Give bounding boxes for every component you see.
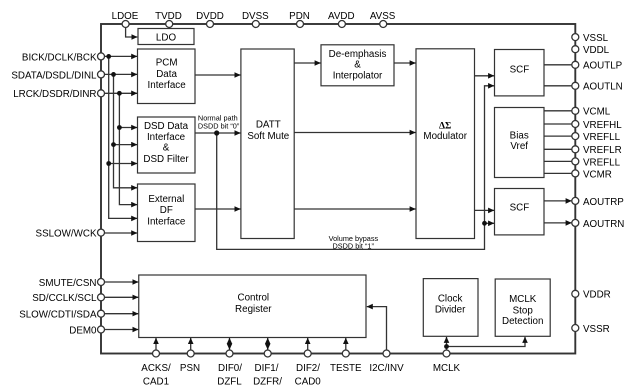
svg-text:Detection: Detection [502, 316, 543, 327]
wire De-emphasis to Modulator [394, 62, 416, 64]
svg-text:VCML: VCML [583, 107, 611, 118]
pin PSN [180, 350, 200, 374]
wire BICK branch into DSD Filter [109, 163, 138, 165]
wire DIF1/DZFR to Control Register bidirectional [267, 338, 269, 344]
wire Bias Vref to VREFHL [544, 123, 572, 125]
Control Register block [139, 275, 366, 338]
svg-text:Modulator: Modulator [423, 131, 467, 142]
wire LRCK branch into DSD Filter [119, 127, 137, 129]
svg-text:Interface: Interface [147, 217, 186, 228]
wire PCM out to DATT [195, 74, 241, 76]
wire MCLK branch to MCLK Stop Detection [447, 337, 526, 347]
wire MCLK to Clock Divider [446, 337, 448, 350]
junction node BICK [106, 54, 111, 59]
svg-text:LDOE: LDOE [112, 11, 139, 22]
svg-text:Interpolator: Interpolator [333, 70, 383, 81]
annotation volume bypass [329, 234, 379, 251]
svg-text:AOUTLP: AOUTLP [583, 61, 623, 72]
svg-text:Stop: Stop [513, 305, 534, 316]
svg-text:PCM: PCM [156, 57, 178, 68]
wire LDOE to LDO [126, 27, 138, 38]
LDO regulator U-LDO [138, 29, 194, 45]
junction node SDATA [111, 72, 116, 77]
svg-text:Soft Mute: Soft Mute [247, 131, 289, 142]
svg-text:VREFLL: VREFLL [583, 157, 621, 168]
svg-text:DSDD bit “1”: DSDD bit “1” [333, 242, 375, 251]
wire DIF2/CAD0 to Control Register [307, 338, 309, 350]
svg-text:SCF: SCF [510, 203, 530, 214]
svg-text:VSSL: VSSL [583, 33, 609, 44]
pin VREFLR [572, 145, 622, 156]
svg-text:CAD0: CAD0 [295, 376, 322, 387]
svg-text:DZFR/: DZFR/ [253, 376, 282, 387]
svg-text:LRCK/DSDR/DINR: LRCK/DSDR/DINR [13, 89, 96, 100]
wire SLOW/CDTI/SDA to Control Register [105, 313, 139, 315]
SCF block (right channel) [495, 189, 545, 235]
wire DEM0 to Control Register [105, 329, 139, 331]
svg-text:LDO: LDO [156, 33, 177, 44]
pin AOUTLN [572, 82, 623, 93]
svg-text:Vref: Vref [510, 141, 528, 152]
svg-text:Clock: Clock [438, 294, 463, 305]
Bias Vref block [495, 108, 545, 178]
svg-text:VREFHL: VREFHL [583, 120, 622, 131]
wire SDATA branch into DSD Filter [114, 144, 138, 146]
svg-text:Interface: Interface [147, 132, 186, 143]
svg-text:DVSS: DVSS [242, 11, 269, 22]
svg-text:Control: Control [238, 293, 270, 304]
wire External DF out to DATT [195, 208, 241, 210]
svg-text:Interface: Interface [148, 80, 187, 91]
pin LDOE [112, 11, 139, 28]
pin DVDD [196, 11, 224, 28]
svg-text:VSSR: VSSR [583, 324, 610, 335]
pin VSSL [572, 33, 609, 44]
DSD Data Interface & DSD Filter block [138, 117, 196, 173]
svg-text:BICK/DCLK/BCK: BICK/DCLK/BCK [22, 52, 97, 63]
pin ACKS/CAD1 [141, 350, 171, 387]
svg-text:TESTE: TESTE [330, 363, 362, 374]
wire DIF0/DZFL to Control Register bidirectional [229, 338, 231, 344]
svg-text:DATT: DATT [256, 119, 281, 130]
pin TESTE [330, 350, 362, 374]
svg-text:SCF: SCF [510, 64, 530, 75]
pin AOUTRP [572, 197, 624, 208]
pin DIF2/CAD0 [295, 350, 322, 387]
pin SSLOW/WCK [36, 229, 105, 240]
wire Bias Vref to VCMR [544, 172, 572, 174]
wire LRCK to PCM Data Interface [105, 92, 138, 94]
svg-text:PDN: PDN [289, 11, 310, 22]
wire Bias Vref to VCML [544, 110, 572, 112]
svg-text:VDDL: VDDL [583, 45, 610, 56]
svg-text:DSDD bit “0”: DSDD bit “0” [198, 121, 240, 130]
wire DATT mid to Modulator [294, 132, 415, 134]
svg-text:External: External [148, 194, 184, 205]
wire I2C/INV to Control Register [367, 307, 387, 351]
junction node DSD row1 [117, 125, 122, 130]
pin DVSS [242, 11, 269, 28]
pin SLOW/CDTI/SDA [19, 310, 104, 321]
svg-text:AVSS: AVSS [370, 11, 396, 22]
svg-text:De-emphasis: De-emphasis [329, 49, 387, 60]
pin AOUTRN [572, 219, 625, 230]
pin MCLK [433, 350, 461, 374]
pin DEM0 [69, 325, 104, 336]
svg-text:VCMR: VCMR [583, 169, 612, 180]
svg-text:VREFLR: VREFLR [583, 145, 622, 156]
junction node LRCK [117, 91, 122, 96]
svg-text:DSD Filter: DSD Filter [143, 154, 189, 165]
junction node DSD row3 [106, 161, 111, 166]
svg-text:DVDD: DVDD [196, 11, 224, 22]
pin AOUTLP [572, 61, 623, 72]
wire SDATA branch to DSD and External DF [114, 74, 138, 187]
wire SCF to AOUTRN [544, 222, 572, 224]
svg-text:VREFLL: VREFLL [583, 132, 621, 143]
Clock Divider block [423, 279, 478, 337]
pin VREFLL2 [572, 157, 621, 168]
wire BICK branch to DSD and External DF [109, 56, 138, 218]
svg-text:I2C/INV: I2C/INV [369, 363, 404, 374]
wire DATT bottom to Modulator [294, 208, 415, 210]
wire DATT to De-emphasis [294, 62, 320, 64]
svg-text:PSN: PSN [180, 363, 200, 374]
pin VDDR [572, 290, 611, 301]
pin LRCK/DSDR/DINR [13, 89, 104, 100]
External DF Interface block [138, 184, 196, 242]
PCM Data Interface block [138, 49, 196, 104]
svg-text:&: & [163, 142, 170, 153]
pin VREFLL [572, 132, 621, 143]
svg-text:TVDD: TVDD [155, 11, 182, 22]
svg-text:Data: Data [156, 69, 177, 80]
wire SMUTE to Control Register [105, 281, 139, 283]
pin VDDL [572, 45, 610, 56]
svg-text:DIF0/: DIF0/ [218, 363, 242, 374]
annotation normal path [198, 113, 240, 130]
wire Bias Vref to VREFLL2 [544, 160, 572, 162]
wire DSD out normal path to DATT [195, 132, 241, 134]
junction node DSD row2 [111, 142, 116, 147]
svg-text:DSD Data: DSD Data [144, 121, 189, 132]
svg-text:AOUTLN: AOUTLN [583, 82, 623, 93]
svg-text:DEM0: DEM0 [69, 325, 97, 336]
pin VSSR [572, 324, 610, 335]
wire SDATA to PCM Data Interface [105, 73, 138, 75]
pin AVSS [370, 11, 396, 28]
junction node MCLK tee [444, 344, 449, 349]
pin BICK/DCLK/BCK [22, 52, 105, 63]
svg-text:DF: DF [160, 205, 173, 216]
pin SMUTE/CSN [39, 278, 105, 289]
wire Modulator to SCF right [475, 209, 495, 211]
svg-text:AOUTRP: AOUTRP [583, 197, 624, 208]
wire TESTE to Control Register [345, 338, 347, 350]
pin DIF1/DZFR [253, 350, 282, 387]
svg-text:&: & [354, 59, 361, 70]
wire SSLOW/WCK to External DF Interface [105, 232, 138, 234]
pin SDATA/DSDL/DINL [11, 70, 104, 81]
wire SCF to AOUTRP [544, 200, 572, 202]
wire ACKS/CAD1 to Control Register [155, 338, 157, 350]
svg-text:AOUTRN: AOUTRN [583, 219, 624, 230]
svg-text:SD/CCLK/SCL: SD/CCLK/SCL [32, 293, 97, 304]
wire BICK to PCM Data Interface [105, 55, 138, 57]
svg-text:CAD1: CAD1 [143, 376, 169, 387]
pin VCMR [572, 169, 612, 180]
Delta-Sigma Modulator block [416, 49, 475, 239]
svg-text:DIF1/: DIF1/ [255, 363, 279, 374]
DATT Soft Mute block [241, 49, 294, 239]
svg-text:SSLOW/WCK: SSLOW/WCK [36, 229, 97, 240]
svg-text:MCLK: MCLK [433, 363, 461, 374]
wire Bias Vref to VREFLR [544, 148, 572, 150]
MCLK Stop Detection block [495, 279, 550, 336]
pin VREFHL [572, 120, 622, 131]
wire bypass tee to SCF right [485, 222, 495, 224]
pin SD/CCLK/SCL [32, 293, 104, 304]
pin TVDD [155, 11, 182, 28]
wire Modulator to SCF left [475, 75, 495, 77]
svg-text:SLOW/CDTI/SDA: SLOW/CDTI/SDA [19, 310, 97, 321]
svg-text:Divider: Divider [435, 305, 466, 316]
pin I2C/INV [369, 350, 404, 374]
svg-text:AVDD: AVDD [328, 11, 355, 22]
wire LRCK branch to DSD and External DF [119, 93, 137, 204]
svg-text:Register: Register [235, 304, 272, 315]
pin VCML [572, 107, 611, 118]
pin AVDD [328, 11, 355, 28]
pin DIF0/DZFL [217, 350, 242, 387]
junction node bypass tee [482, 221, 487, 226]
svg-text:SMUTE/CSN: SMUTE/CSN [39, 278, 97, 289]
wire SD/CCLK/SCL to Control Register [105, 296, 139, 298]
svg-text:DIF2/: DIF2/ [296, 363, 320, 374]
junction node normal path [214, 130, 219, 135]
wire Bias Vref to VREFLL [544, 135, 572, 137]
svg-text:VDDR: VDDR [583, 290, 611, 301]
wire SCF to AOUTLP [544, 64, 572, 66]
De-emphasis & Interpolator block [321, 45, 394, 86]
svg-text:DZFL: DZFL [217, 376, 242, 387]
pin PDN [289, 11, 310, 28]
chip boundary [101, 24, 575, 354]
SCF block (left channel) [495, 50, 545, 96]
wire SCF to AOUTLN [544, 85, 572, 87]
svg-text:SDATA/DSDL/DINL: SDATA/DSDL/DINL [11, 70, 97, 81]
wire volume bypass from DSD node to SCF left [217, 86, 494, 250]
svg-text:ACKS/: ACKS/ [141, 363, 171, 374]
svg-text:MCLK: MCLK [509, 294, 537, 305]
wire PSN to Control Register [190, 338, 192, 350]
